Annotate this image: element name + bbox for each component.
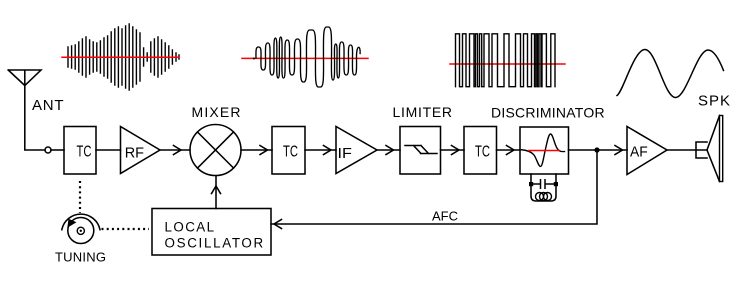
svg-text:LOCAL: LOCAL: [165, 220, 215, 235]
arrow into local oscillator: [274, 220, 282, 229]
mixer U1 circle: [190, 125, 241, 176]
svg-text:TC: TC: [283, 144, 298, 161]
inductor L1 coil: [536, 193, 552, 201]
waveform W4 audio sine: [617, 50, 724, 98]
tuning knob outer arc: [62, 214, 100, 230]
wire limiter to TC3: [441, 149, 465, 151]
tuning knob center: [77, 227, 84, 234]
arrow into AF: [615, 146, 623, 155]
svg-text:TC: TC: [475, 144, 490, 161]
wire AF to speaker: [667, 149, 707, 151]
dotted link TC1 to tuning: [79, 181, 81, 213]
svg-text:RF: RF: [125, 145, 144, 162]
arrow into discriminator: [507, 146, 515, 155]
block TC2: [272, 127, 305, 175]
discriminator red line: [529, 150, 559, 152]
svg-text:IF: IF: [338, 145, 352, 162]
wire terminal to TC1: [51, 149, 64, 151]
block DISCRIMINATOR: [520, 127, 569, 174]
block TC3: [464, 127, 497, 175]
junction dots cap: [529, 182, 533, 186]
svg-text:TUNING: TUNING: [55, 250, 106, 265]
wire antenna down: [25, 86, 45, 151]
svg-text:AF: AF: [630, 144, 648, 161]
mixer X: [198, 132, 234, 168]
reference line (red) W2: [242, 57, 368, 59]
svg-text:DISCRIMINATOR: DISCRIMINATOR: [491, 105, 605, 121]
waveform W3 limited square wave: [456, 34, 556, 87]
arrow into TC2: [260, 146, 268, 155]
wire mixer to TC2: [241, 149, 272, 151]
junction node AFC pickoff: [594, 147, 599, 152]
wire TC1 to RF: [96, 149, 121, 151]
block LIMITER: [400, 127, 441, 175]
reference line (red) W3: [450, 63, 565, 65]
svg-text:AFC: AFC: [432, 209, 458, 224]
amplifier RF: [121, 127, 161, 174]
tuned circuit under discriminator: wires: [531, 174, 556, 201]
amplifier IF: [336, 127, 377, 174]
tuning knob arrow: [67, 219, 76, 228]
svg-text:LIMITER: LIMITER: [393, 104, 453, 120]
arrow into mixer: [174, 146, 182, 155]
antenna: [8, 70, 41, 86]
wire RF to mixer: [160, 149, 190, 151]
svg-text:SPK: SPK: [698, 93, 730, 110]
wire LO to mixer: [215, 176, 217, 209]
waveform W2 IF signal: [253, 58, 255, 60]
AFC feedback wire down: [271, 150, 597, 224]
wire IF to limiter: [377, 149, 400, 151]
wire discriminator to AF: [569, 149, 628, 151]
arrow into TC3: [452, 146, 460, 155]
wire TC3 to discriminator: [497, 149, 521, 151]
node terminal circle: [45, 147, 51, 153]
block LOCAL OSCILLATOR: [152, 209, 271, 256]
block TC1: [64, 127, 96, 175]
arrow up into mixer: [212, 186, 221, 194]
speaker SPK: [696, 116, 720, 182]
capacitor C1: [531, 180, 556, 188]
amplifier AF: [627, 127, 667, 175]
arrow into limiter: [386, 146, 394, 155]
limiter symbol: [405, 146, 437, 154]
wire TC2 to IF: [305, 149, 336, 151]
svg-text:TC: TC: [77, 144, 92, 161]
tuning knob body: [68, 218, 94, 244]
svg-text:OSCILLATOR: OSCILLATOR: [165, 236, 264, 251]
arrow into IF: [324, 146, 332, 155]
svg-text:MIXER: MIXER: [192, 104, 241, 120]
reference line (red) W1: [62, 56, 179, 58]
waveform W1 modulated-RF bars: [68, 24, 179, 90]
dotted link tuning to LO: [102, 228, 150, 230]
svg-text:ANT: ANT: [32, 97, 64, 114]
discriminator S-curve: [522, 134, 565, 166]
